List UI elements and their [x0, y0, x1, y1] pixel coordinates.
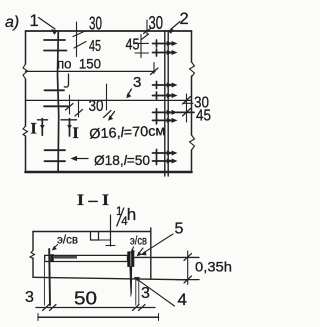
- svg-text:I: I: [31, 121, 37, 138]
- weld row E1 at joint: [153, 150, 178, 157]
- short dash under 30 right: [183, 102, 193, 104]
- section right edge: [150, 228, 152, 279]
- svg-text:2: 2: [180, 10, 189, 28]
- left anchor rod: [48, 249, 51, 305]
- slash mid left: [66, 104, 74, 111]
- svg-text:45: 45: [196, 108, 211, 125]
- slash right lower: [183, 109, 191, 117]
- long dimension line y100: [26, 99, 192, 101]
- leader of 5: [143, 234, 173, 253]
- stirrup row R2 on bar 1: [44, 50, 67, 52]
- quarter-h tick: [110, 215, 112, 246]
- bottom dimension line: [36, 307, 155, 309]
- leader weld right 1: [132, 247, 134, 251]
- 0,35h top tick: [134, 256, 199, 258]
- bar 1 (vertical rebar): [58, 31, 59, 172]
- dim line по150 at y71: [26, 70, 156, 72]
- break symbol left upper: [23, 64, 28, 79]
- stirrup row R1 on bar 1: [44, 39, 65, 41]
- svg-text:Ø18,l=50: Ø18,l=50: [94, 152, 150, 168]
- svg-text:30: 30: [89, 98, 104, 115]
- slash mid right: [75, 110, 83, 117]
- section bottom edge: [33, 277, 188, 280]
- dim tick x147 (30 top-right): [146, 20, 148, 34]
- svg-text:1: 1: [30, 12, 39, 30]
- svg-text:30: 30: [89, 14, 102, 34]
- slash bottom left A: [43, 305, 50, 311]
- mid tick x78.5: [78, 100, 80, 117]
- stirrup row R4 on bar 1: [44, 105, 68, 107]
- stirrup row R3 on bar 1: [45, 89, 65, 91]
- svg-text:0,35h: 0,35h: [195, 260, 232, 275]
- weld row D1 at joint: [153, 109, 195, 116]
- tick with dashes left of joint (45 spacing mark): [140, 35, 142, 58]
- break symbol right lower: [190, 135, 195, 150]
- leader weld left: [54, 245, 58, 249]
- quarter-h bottom dash: [106, 245, 115, 247]
- break symbol left lower: [23, 126, 28, 136]
- frame bottom edge: [26, 171, 192, 174]
- svg-text:3: 3: [133, 74, 141, 91]
- section left edge with break: [32, 232, 34, 278]
- left weld plate: [50, 254, 53, 262]
- link channel to tick: [99, 239, 111, 241]
- section cut stroke right: [69, 119, 71, 136]
- dimension tick x77 (30/45 top): [76, 22, 78, 57]
- right weld plate: [128, 252, 134, 267]
- weld row E2 at joint: [153, 158, 178, 165]
- mid tick x69.5: [69, 95, 71, 114]
- svg-text:э/св: э/св: [130, 236, 147, 248]
- stirrup row R6 on bar 1: [45, 160, 66, 162]
- weld row B1 at joint: [153, 82, 178, 89]
- leader of 4: [137, 279, 175, 306]
- frame left edge with breaks: [25, 31, 27, 172]
- end tick of по150 line: [153, 63, 155, 74]
- weld row A2 at joint: [153, 49, 178, 56]
- 0,35h dimension line: [187, 251, 189, 285]
- svg-text:30: 30: [149, 13, 164, 33]
- right anchor rod (pointed): [130, 267, 132, 297]
- svg-text:I: I: [73, 125, 79, 142]
- break symbol right upper: [190, 62, 195, 77]
- bar left dark band: [54, 256, 77, 259]
- joint double line 2: [164, 31, 166, 176]
- 0,35h bottom tick: [177, 279, 200, 281]
- slash at по150 end tick: [151, 68, 159, 75]
- svg-text:45: 45: [89, 38, 101, 55]
- section cut stroke left: [41, 119, 43, 136]
- base line under dimension: [38, 316, 159, 318]
- svg-text:5: 5: [175, 221, 184, 238]
- stirrup row R5 on bar 1: [45, 149, 66, 151]
- svg-text:э/св: э/св: [57, 235, 78, 247]
- slash 0,35h top: [184, 254, 192, 261]
- frame top edge: [26, 30, 192, 32]
- rebar hook symbol: [64, 74, 68, 87]
- mid tick x106.5: [106, 84, 108, 110]
- svg-text:3: 3: [141, 285, 150, 302]
- svg-text:50: 50: [74, 289, 97, 309]
- slash bottom right B: [139, 305, 146, 311]
- break symbol section left: [30, 251, 35, 259]
- weld row D2 at joint: [153, 117, 178, 124]
- right dim tick x186.5: [186, 94, 188, 122]
- horizontal bar (welded rod) outline: [45, 255, 128, 261]
- svg-text:I – I: I – I: [77, 192, 109, 209]
- frame right edge with breaks: [191, 31, 193, 172]
- weld row A1 at joint: [153, 40, 178, 47]
- arrow to Ø18 bars: [74, 158, 88, 160]
- slash on tick x77 lower: [74, 42, 86, 49]
- label 1/4h slash: [117, 208, 124, 226]
- right extension lines: [136, 280, 139, 305]
- left extension line: [43, 262, 45, 305]
- top chord line of section: [33, 231, 151, 233]
- channel symbol: [91, 232, 99, 241]
- slash below tick x106.5: [104, 111, 112, 118]
- slash bottom left B: [50, 305, 57, 311]
- slash bottom right A: [133, 305, 140, 311]
- slash right upper: [183, 97, 191, 105]
- svg-text:45: 45: [126, 37, 140, 54]
- slash on tick x77 upper: [73, 32, 84, 37]
- svg-text:по 150: по 150: [57, 56, 101, 72]
- svg-text:4: 4: [178, 290, 187, 309]
- weld row B2 at joint: [153, 92, 178, 99]
- svg-text:3: 3: [25, 289, 34, 306]
- svg-text:Ø16,l=70см: Ø16,l=70см: [89, 122, 166, 141]
- svg-text:h: h: [127, 205, 136, 224]
- slash 0,35h bottom: [184, 276, 192, 283]
- base line end ticks: [38, 314, 159, 321]
- leader of 2: [171, 22, 180, 30]
- svg-text:а): а): [5, 14, 19, 31]
- leader weld right 2: [138, 248, 143, 254]
- leader of 1: [39, 18, 56, 30]
- leader of 3 lower segment: [110, 112, 115, 118]
- leader of 3 upper segment: [127, 89, 131, 96]
